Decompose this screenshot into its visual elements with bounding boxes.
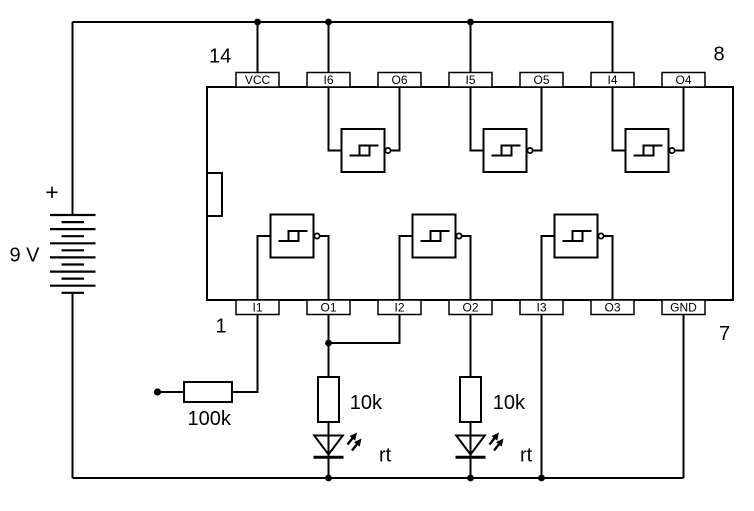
junction dot I3 on ground rail xyxy=(538,475,545,482)
junction dot I5 on top rail xyxy=(467,19,474,26)
wire battery negative terminal to ground rail xyxy=(72,293,74,478)
wire resistor R1 to I1 pin xyxy=(232,315,258,393)
pin box I4 (top row) xyxy=(591,73,634,88)
wire gate 4 output to O4 pin xyxy=(675,87,684,151)
svg-text:I6: I6 xyxy=(323,73,333,87)
svg-text:7: 7 xyxy=(719,323,730,345)
wire I5 pin to gate 5 input xyxy=(471,87,484,151)
resistor R1 100k xyxy=(184,382,232,402)
wire gate 3 output to O3 pin xyxy=(604,236,613,300)
svg-text:VCC: VCC xyxy=(245,73,271,87)
svg-text:GND: GND xyxy=(670,300,697,314)
Schmitt trigger inverter gate 3 xyxy=(555,215,604,258)
wire gate 6 output to O6 pin xyxy=(391,87,400,151)
pin box GND (bottom row) xyxy=(662,300,705,315)
svg-text:9 V: 9 V xyxy=(10,245,41,267)
pin box I6 (top row) xyxy=(307,73,350,88)
Schmitt trigger inverter gate 4 xyxy=(626,129,675,172)
junction dot I6 on top rail xyxy=(325,19,332,26)
svg-text:100k: 100k xyxy=(188,408,232,430)
IC U1 74HC14 body xyxy=(207,87,733,300)
svg-text:O5: O5 xyxy=(533,73,549,87)
junction dot VCC on top rail xyxy=(254,19,261,26)
wire node A to resistor R2 xyxy=(328,343,330,377)
wire I4 pin to gate 4 input xyxy=(613,87,626,151)
wire top rail to I5 pin xyxy=(470,22,472,73)
svg-text:I1: I1 xyxy=(252,300,262,314)
wire I1 pin to gate 1 input xyxy=(258,236,271,300)
Schmitt trigger inverter gate 2 xyxy=(413,215,462,258)
svg-text:O3: O3 xyxy=(604,300,620,314)
battery BT1 plates xyxy=(50,215,96,293)
wire gate 1 output to O1 pin xyxy=(320,236,329,300)
resistor R2 10k xyxy=(318,377,339,422)
resistor R3 10k xyxy=(460,377,481,422)
pin box I2 (bottom row) xyxy=(378,300,421,315)
svg-text:O6: O6 xyxy=(391,73,407,87)
pin box O1 (bottom row) xyxy=(307,300,350,315)
pin box O6 (top row) xyxy=(378,73,421,88)
junction dot LED2 on ground rail xyxy=(467,475,474,482)
ground rail from battery negative to GND pin xyxy=(73,477,684,479)
svg-text:I3: I3 xyxy=(536,300,546,314)
wire GND pin to ground rail xyxy=(683,315,685,479)
pin box I1 (bottom row) xyxy=(236,300,279,315)
wire I3 pin to ground rail xyxy=(541,315,543,479)
wire gate 5 output to O5 pin xyxy=(533,87,542,151)
Schmitt trigger inverter gate 6 xyxy=(342,129,391,172)
IC orientation notch xyxy=(207,173,222,216)
pin box O2 (bottom row) xyxy=(449,300,492,315)
svg-text:8: 8 xyxy=(714,44,725,66)
wire battery positive terminal to top rail xyxy=(72,22,74,215)
svg-text:I2: I2 xyxy=(394,300,404,314)
LED LED1 red xyxy=(314,422,362,478)
wire node A to I2 pin xyxy=(329,315,400,344)
svg-text:rt: rt xyxy=(520,445,533,467)
junction dot node A (O1 feedback) xyxy=(325,340,332,347)
wire gate 2 output to O2 pin xyxy=(462,236,471,300)
wire I2 pin to gate 2 input xyxy=(400,236,413,300)
svg-text:O4: O4 xyxy=(675,73,691,87)
junction dot LED1 on ground rail xyxy=(325,475,332,482)
svg-text:O2: O2 xyxy=(462,300,478,314)
wire touch contact to resistor R1 xyxy=(158,391,185,393)
LED LED2 red xyxy=(456,422,504,478)
wire I3 pin to gate 3 input xyxy=(542,236,555,300)
pin box I5 (top row) xyxy=(449,73,492,88)
svg-text:+: + xyxy=(45,179,58,205)
Schmitt trigger inverter gate 1 xyxy=(271,215,320,258)
svg-text:I4: I4 xyxy=(607,73,617,87)
wire I6 pin to gate 6 input xyxy=(329,87,342,151)
Schmitt trigger inverter gate 5 xyxy=(484,129,533,172)
svg-text:10k: 10k xyxy=(493,392,526,414)
wire O2 pin down to resistor R3 xyxy=(470,315,472,378)
touch contact terminal dot xyxy=(154,388,161,395)
svg-text:10k: 10k xyxy=(350,392,383,414)
svg-text:I5: I5 xyxy=(465,73,475,87)
svg-text:rt: rt xyxy=(379,445,392,467)
pin box O3 (bottom row) xyxy=(591,300,634,315)
svg-text:14: 14 xyxy=(209,46,231,68)
wire top rail to VCC pin xyxy=(257,22,259,73)
pin box O5 (top row) xyxy=(520,73,563,88)
pin box I3 (bottom row) xyxy=(520,300,563,315)
pin box O4 (top row) xyxy=(662,73,705,88)
svg-text:1: 1 xyxy=(216,316,227,338)
wire top rail to I6 pin xyxy=(328,22,330,73)
svg-text:O1: O1 xyxy=(320,300,336,314)
pin box VCC (top row) xyxy=(236,73,279,88)
wire O1 pin down to junction node A xyxy=(328,315,330,344)
top VCC rail from battery to pin I4 xyxy=(73,22,613,73)
